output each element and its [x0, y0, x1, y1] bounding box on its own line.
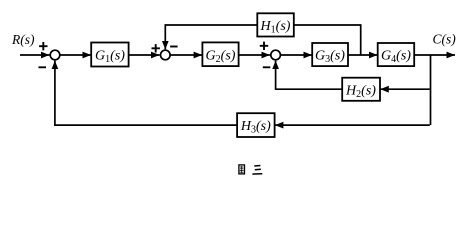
svg-text:G3(s): G3(s)	[315, 49, 345, 66]
svg-text:H1(s): H1(s)	[260, 19, 291, 36]
svg-text:H3(s): H3(s)	[240, 119, 271, 136]
svg-text:G4(s): G4(s)	[381, 49, 411, 66]
svg-text:G1(s): G1(s)	[95, 49, 125, 66]
svg-text:R(s): R(s)	[11, 32, 35, 47]
svg-text:G2(s): G2(s)	[206, 49, 236, 66]
svg-text:C(s): C(s)	[433, 32, 457, 47]
svg-text:H2(s): H2(s)	[345, 83, 376, 100]
